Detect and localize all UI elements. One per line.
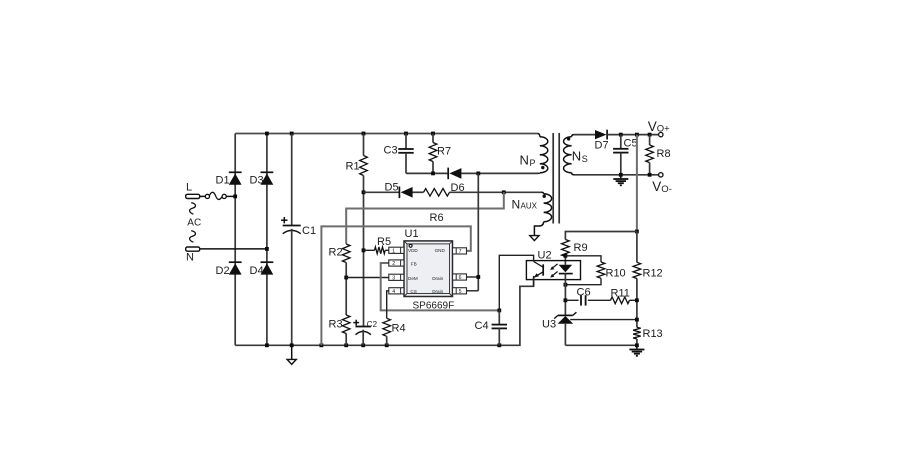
svg-text:C6: C6 [577, 287, 591, 299]
label R3 [329, 319, 343, 331]
wire pin6 lead [467, 276, 479, 278]
svg-text:SP6669F: SP6669F [413, 301, 455, 312]
wire tap to R9 [565, 232, 637, 240]
resistor R10 [597, 262, 605, 278]
wire R10 branch bottom [565, 278, 601, 284]
wire Vo- line [574, 174, 659, 176]
svg-text:D3: D3 [250, 175, 264, 187]
label R13 [643, 328, 663, 340]
svg-text:V: V [652, 179, 661, 194]
svg-text:FB: FB [411, 262, 417, 267]
svg-text:R2: R2 [329, 247, 343, 259]
label R11 [611, 288, 630, 300]
node naux-r2link [502, 190, 506, 194]
wire U3 ref line [570, 319, 637, 321]
phase dot NAUX [543, 195, 546, 198]
label SP6669F [413, 301, 455, 312]
wire R9 to LED [564, 257, 566, 265]
ground primary arrow [287, 345, 296, 364]
wire C5 top lead [620, 135, 622, 149]
capacitor C5 [613, 149, 628, 153]
wire C6 lead [565, 299, 578, 301]
node Vo+-fbtap [635, 133, 639, 137]
resistor R2 [342, 244, 350, 263]
wire VDD column [363, 176, 365, 327]
svg-text:GND: GND [435, 248, 446, 253]
wire D7 to Vo+ [608, 134, 659, 136]
ground NAUX arrow [530, 236, 539, 241]
wire R3 bottom [345, 334, 347, 346]
svg-text:C4: C4 [475, 320, 489, 332]
label R5 [377, 236, 391, 248]
svg-text:1: 1 [392, 248, 395, 254]
node rail-C1b [290, 343, 294, 347]
pin 4 (CS) [389, 288, 404, 295]
svg-text:D2: D2 [216, 265, 230, 277]
svg-text:N: N [520, 153, 529, 168]
label R12 [643, 268, 663, 280]
capacitor C3 [398, 149, 413, 153]
svg-text:R13: R13 [643, 328, 663, 340]
label NP [520, 153, 536, 168]
wire N lead [200, 248, 267, 250]
pin label FB [411, 262, 417, 267]
svg-text:VDD: VDD [408, 248, 418, 253]
diode D1 [229, 172, 242, 184]
svg-text:6: 6 [459, 275, 462, 281]
svg-text:R12: R12 [643, 268, 663, 280]
svg-text:AC: AC [187, 217, 201, 228]
wire DEM to pin3 [346, 277, 389, 279]
label N [186, 252, 194, 264]
svg-text:2: 2 [392, 261, 395, 267]
node rail-R4 [385, 343, 389, 347]
svg-text:AUX: AUX [521, 202, 538, 211]
node LED bottom (R10 branch) [564, 283, 568, 287]
label D1 [216, 175, 230, 187]
label R6 [430, 212, 444, 224]
label C5 [624, 138, 638, 150]
ground secondary at R13 [629, 345, 644, 356]
wire bridge column 1 (D1/D2) [234, 134, 236, 346]
wire drain vertical [477, 173, 479, 290]
wire R7 top lead [432, 134, 434, 143]
resistor R13 [633, 327, 641, 339]
terminal L [186, 194, 200, 198]
svg-text:7: 7 [459, 249, 462, 255]
svg-text:5: 5 [459, 289, 462, 295]
opto LED [559, 265, 573, 274]
wire C1 bottom [291, 229, 293, 345]
resistor R5 [375, 247, 386, 254]
resistor R11 [611, 297, 630, 304]
label D5 [385, 182, 399, 194]
pin 7 (GND) [453, 248, 467, 255]
label R2 [329, 247, 343, 259]
svg-text:R5: R5 [377, 236, 391, 248]
label R8 [657, 148, 671, 160]
ac source squiggle top [190, 203, 196, 215]
wire R5 to pin1 [385, 249, 389, 251]
label Vo+ [648, 119, 670, 135]
wire C5 bottom lead [620, 153, 622, 175]
node LED top (R10 branch) [564, 254, 568, 258]
label R4 [392, 323, 406, 335]
label R7 [437, 146, 451, 158]
node clamp-drain [476, 172, 480, 176]
wire R2-R3 [345, 263, 347, 316]
node rail-R3 [344, 343, 348, 347]
node rail-R7 [431, 132, 435, 136]
node Vo--C5 [619, 173, 623, 177]
wire CS route [387, 291, 389, 319]
svg-text:DeM: DeM [408, 276, 418, 281]
resistor R7 [429, 143, 437, 162]
wire NS top to D7 [574, 134, 595, 136]
svg-text:C3: C3 [384, 145, 398, 157]
phase dot NP [541, 166, 544, 169]
pin label VDD [408, 248, 418, 253]
ac source squiggle bottom [190, 231, 196, 243]
node rail-D3 [265, 132, 269, 136]
svg-text:D4: D4 [250, 265, 264, 277]
wire C2 bottom [362, 330, 364, 346]
terminal Vo- [659, 173, 663, 177]
pin label CS [410, 289, 416, 294]
pin 1 indicator dot [409, 244, 412, 247]
wire clamp line to NP bottom [406, 172, 538, 174]
svg-text:C1: C1 [302, 225, 316, 237]
capacitor C1 [281, 217, 301, 234]
wire R10 branch top [565, 256, 601, 262]
winding NAUX [534, 192, 551, 235]
wire VDD charge row [364, 191, 542, 193]
op-amp U1 body (SP6669F controller) [404, 241, 453, 297]
transformer core [553, 133, 559, 224]
svg-text:U2: U2 [538, 250, 552, 262]
wire R12 leads [636, 232, 638, 328]
pin label GND [435, 248, 446, 253]
svg-text:D7: D7 [595, 140, 609, 152]
svg-text:C2: C2 [367, 320, 378, 329]
node rail-C2 [361, 343, 365, 347]
svg-text:R11: R11 [611, 288, 630, 300]
opto transistor [534, 262, 544, 278]
label NAUX [512, 198, 538, 212]
wire fuse to bridge [226, 195, 235, 197]
node rail-gndline [320, 343, 324, 347]
resistor R8 with leads [646, 135, 654, 175]
wire C3 bottom lead [405, 153, 407, 174]
svg-text:D5: D5 [385, 182, 399, 194]
node U3 ref junction [635, 318, 639, 322]
node drain-pin6 [476, 275, 480, 279]
pin label Drain (pin6) [432, 276, 443, 281]
wire feedback column top [636, 135, 638, 232]
fuse F1 [205, 192, 226, 199]
svg-text:R1: R1 [346, 161, 360, 173]
svg-text:R6: R6 [430, 212, 444, 224]
svg-text:Drain: Drain [432, 276, 443, 281]
wire secondary gnd line [565, 344, 637, 346]
wire R5 left lead [364, 249, 375, 251]
wire R7 bottom lead [432, 162, 434, 174]
wire R13 bottom [636, 339, 638, 345]
resistor R12 [633, 262, 641, 278]
wire C3 top lead [405, 134, 407, 150]
svg-text:R3: R3 [329, 319, 343, 331]
diode D4 [261, 262, 274, 274]
node Vo--R8 [648, 173, 652, 177]
label C4 [475, 320, 489, 332]
node N-bridge [265, 247, 269, 251]
label U1 [405, 228, 419, 240]
wire top rail [235, 133, 537, 135]
svg-text:D1: D1 [216, 175, 230, 187]
svg-text:N: N [572, 149, 581, 164]
label C3 [384, 145, 398, 157]
label D2 [216, 265, 230, 277]
ground secondary at C5 [613, 175, 628, 186]
svg-text:R4: R4 [392, 323, 406, 335]
node Vo+-R8 [648, 133, 652, 137]
node rail-D4col [265, 343, 269, 347]
svg-text:O+: O+ [657, 123, 670, 134]
wire R1 top lead [363, 134, 365, 156]
pin 6 (Drain) [453, 274, 467, 281]
node Vo+-C5 [619, 133, 623, 137]
svg-text:R7: R7 [437, 146, 451, 158]
label C6 [577, 287, 591, 299]
label NS [572, 149, 588, 164]
diode D6 [448, 168, 461, 180]
pin 2 (FB) [389, 260, 404, 267]
pin 1 (VDD) [389, 247, 404, 254]
svg-text:N: N [186, 252, 194, 264]
wire LED cathode down [564, 274, 566, 316]
svg-text:U3: U3 [542, 319, 556, 331]
node secondary gnd [635, 343, 639, 347]
wire FB route [381, 263, 500, 310]
svg-text:S: S [582, 154, 588, 164]
pin 3 (DeM) [389, 274, 404, 281]
resistor R1 [360, 156, 368, 176]
node VDD-R5 [362, 248, 366, 252]
svg-text:R8: R8 [657, 148, 671, 160]
svg-text:V: V [648, 119, 657, 134]
wire L lead [200, 195, 206, 197]
resistor R4 [383, 318, 391, 336]
node C6 branch [564, 298, 568, 302]
node R11 junction [635, 298, 639, 302]
capacitor C2 [353, 320, 371, 335]
node rail-R1 [362, 132, 366, 136]
opto emission arrow 2 [550, 272, 558, 278]
svg-text:3: 3 [392, 275, 395, 281]
resistor R6 [424, 189, 450, 197]
capacitor C6 [581, 295, 586, 305]
node clamp-R7 [431, 172, 435, 176]
svg-text:Drain: Drain [432, 289, 443, 294]
pin label DeM [408, 276, 418, 281]
svg-text:P: P [530, 158, 536, 168]
svg-text:CS: CS [410, 289, 416, 294]
diode D7 [595, 130, 607, 140]
svg-text:O-: O- [661, 184, 672, 195]
wire bridge column 2 (D3/D4) [266, 134, 268, 346]
node VDD-D5 [362, 190, 366, 194]
node FB-C4 [497, 309, 501, 313]
svg-text:R9: R9 [574, 242, 588, 254]
label D3 [250, 175, 264, 187]
label D7 [595, 140, 609, 152]
wire C4 top lead [498, 310, 500, 324]
node rail-C3 [404, 132, 408, 136]
terminal Vo+ [659, 132, 663, 136]
winding NS [564, 135, 574, 175]
wire R4 bottom [386, 336, 388, 345]
diode D3 [261, 172, 274, 184]
label U3 [542, 319, 556, 331]
label AC [187, 217, 201, 228]
label D6 [451, 182, 465, 194]
resistor R3 [342, 315, 350, 334]
optocoupler U2 box [526, 261, 580, 280]
wire C6 to R11 [588, 299, 611, 301]
terminal N [186, 247, 200, 251]
node rail-C1 [290, 132, 294, 136]
wire R2 link [346, 192, 504, 244]
svg-text:R10: R10 [606, 268, 626, 280]
capacitor C4 [492, 325, 507, 329]
node L-bridge [233, 195, 237, 199]
pin label Drain (pin5) [432, 289, 443, 294]
resistor R9 [562, 240, 570, 257]
phase dot NS [567, 137, 570, 140]
wire C4 bottom lead [498, 328, 500, 345]
svg-text:C5: C5 [624, 138, 638, 150]
diode D2 [229, 262, 242, 274]
wire pin5 lead [467, 290, 479, 292]
shunt regulator U3 [554, 312, 576, 324]
label U2 [538, 250, 552, 262]
label Vo- [652, 179, 672, 195]
opto emission arrow 1 [550, 264, 558, 270]
svg-text:L: L [186, 182, 192, 194]
label C1 [302, 225, 316, 237]
svg-text:N: N [512, 198, 521, 212]
label D4 [250, 265, 264, 277]
wire GND route [321, 226, 470, 345]
wire R11 to column [630, 299, 637, 301]
label C2 [367, 320, 378, 329]
winding NP [538, 134, 548, 174]
wire opto emitter [533, 276, 535, 286]
label R10 [606, 268, 626, 280]
label L [186, 182, 192, 194]
label R9 [574, 242, 588, 254]
label R1 [346, 161, 360, 173]
wire bottom rail [235, 277, 533, 345]
node rail-C4 [497, 343, 501, 347]
diode D5 [399, 187, 412, 199]
svg-text:4: 4 [392, 289, 395, 295]
pin 5 (Drain) [453, 288, 467, 295]
wire C1 top [291, 134, 293, 226]
wire U3 anode down [564, 324, 566, 346]
wire opto collector [499, 255, 533, 310]
svg-text:U1: U1 [405, 228, 419, 240]
node fb tap [635, 230, 639, 234]
node DEM junction [344, 276, 348, 280]
